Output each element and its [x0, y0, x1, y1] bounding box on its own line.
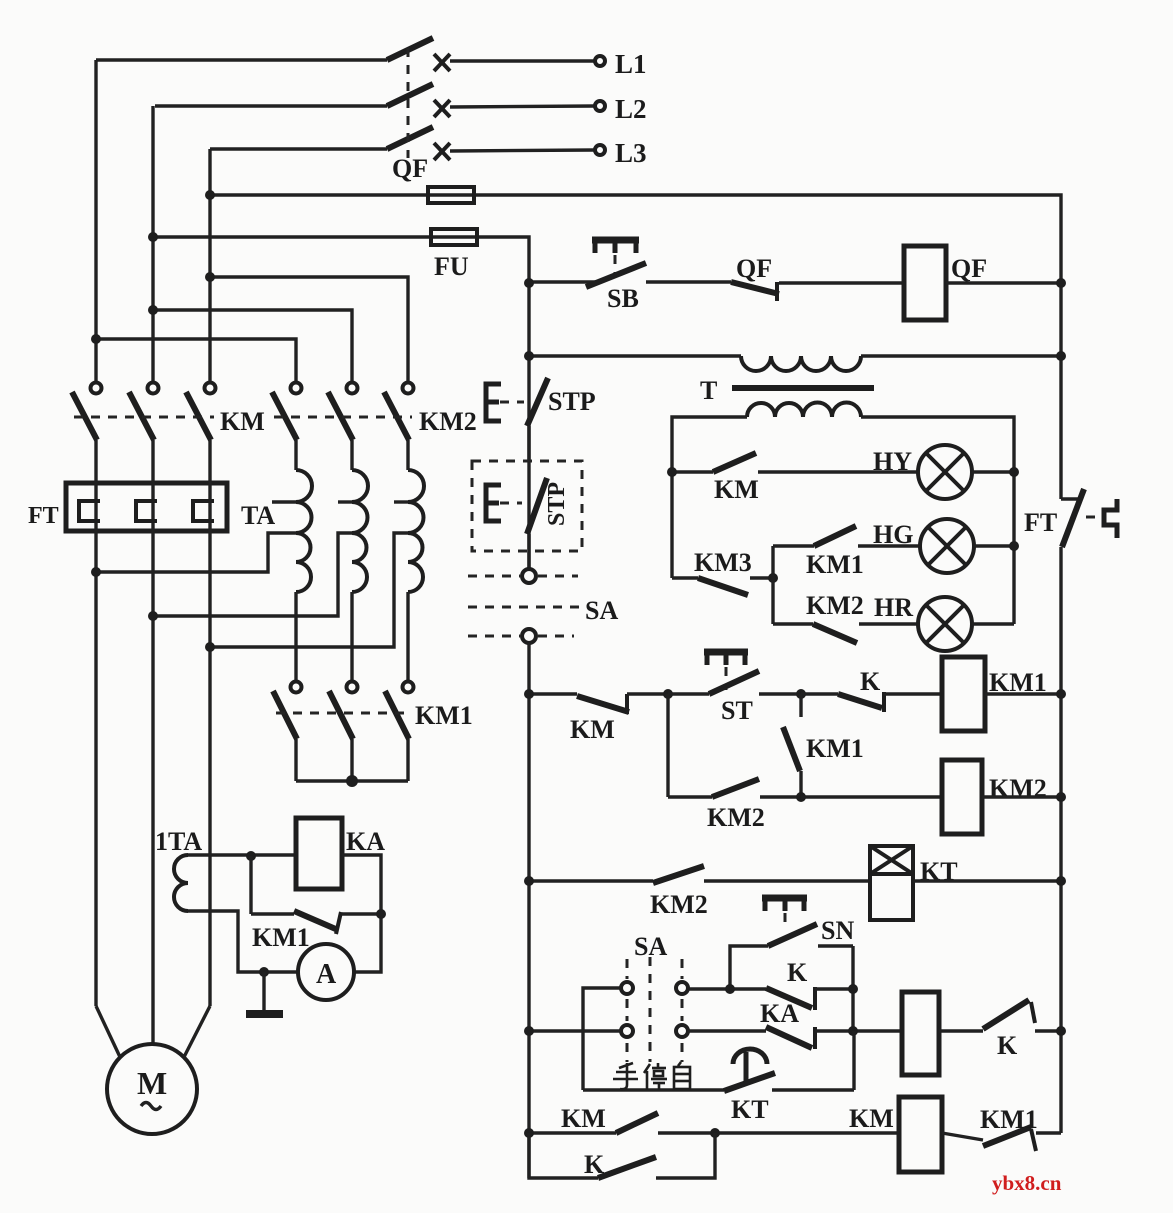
wire KA row left	[529, 1029, 621, 1032]
wire motor lead C	[184, 1006, 210, 1057]
svg-text:KT: KT	[731, 1095, 769, 1124]
junction left rail SB row	[524, 278, 534, 288]
contactor KM2 main contact pole 1	[272, 383, 302, 441]
contact K right	[939, 1000, 1061, 1031]
wire phase A vertical	[94, 60, 97, 383]
contact KM2 lamp row	[773, 624, 918, 643]
svg-text:A: A	[316, 959, 337, 990]
junction HG rail	[1009, 541, 1019, 551]
svg-text:HR: HR	[874, 593, 913, 622]
wire SA upper-left bracket	[583, 988, 621, 1090]
junction right rail KT row	[1056, 876, 1066, 886]
contactor KM2 main contact pole 2	[328, 383, 358, 441]
junction tap C	[205, 642, 215, 652]
wire SN K branch vertical	[851, 946, 854, 1031]
svg-text:K: K	[860, 667, 881, 696]
svg-text:KM1: KM1	[252, 923, 310, 952]
KM1 link dashed	[276, 712, 412, 715]
junction SN branch left	[725, 984, 735, 994]
SA contact circle upper-left	[621, 982, 633, 994]
wire left control rail	[527, 643, 530, 1178]
junction K coil row	[848, 1026, 858, 1036]
TA column 2 tap to phase B	[153, 533, 352, 616]
relay coil K	[902, 992, 939, 1075]
junction HY rail	[1009, 467, 1019, 477]
circuit breaker QF pole 3	[210, 127, 595, 160]
thermal contact FT (NC) on right rail	[1061, 489, 1117, 547]
lamp HR	[918, 597, 972, 651]
svg-text:KM1: KM1	[806, 550, 864, 579]
svg-text:KM2: KM2	[806, 591, 864, 620]
junction A-branch	[91, 334, 101, 344]
svg-text:FU: FU	[434, 252, 469, 281]
junction right rail SB row	[1056, 278, 1066, 288]
svg-text:TA: TA	[241, 501, 275, 530]
junction right rail K row	[1056, 1026, 1066, 1036]
junction SN branch right	[848, 984, 858, 994]
transformer T secondary	[672, 403, 1014, 625]
junction left rail bottom	[524, 1128, 534, 1138]
transformer T core	[732, 385, 874, 391]
contact STP upper (NC)	[486, 378, 548, 462]
pushbutton SB	[529, 240, 646, 287]
svg-text:ybx8.cn: ybx8.cn	[992, 1171, 1062, 1195]
junction ST branch	[663, 689, 673, 699]
wire QF coil to right rail	[946, 281, 1061, 284]
svg-text:STP: STP	[548, 387, 596, 416]
KM2 link dashed	[274, 416, 412, 419]
svg-text:KM: KM	[570, 715, 615, 744]
svg-text:KM2: KM2	[419, 407, 477, 436]
SA dashed row 3	[468, 635, 574, 638]
junction C-branch	[205, 272, 215, 282]
contact KA	[688, 1027, 902, 1049]
contact KM2 interlock row2	[668, 694, 801, 797]
svg-text:L1: L1	[615, 49, 647, 79]
pushbutton SN	[730, 898, 853, 989]
junction KM3 node	[768, 573, 778, 583]
ground	[246, 972, 283, 1014]
svg-text:L2: L2	[615, 94, 647, 124]
contact QF aux	[731, 282, 904, 301]
dashed enclosure STP lower	[472, 461, 582, 551]
wire HG to rail	[974, 544, 1014, 547]
TA column 3 tap to phase C	[210, 533, 408, 647]
junction fuse2 tap	[148, 232, 158, 242]
svg-text:SA: SA	[634, 932, 667, 961]
FT heater element phase A	[79, 440, 100, 1006]
wire right rail lower	[1059, 547, 1062, 1133]
motor M	[107, 1044, 197, 1134]
autotransformer TA winding column 1	[272, 440, 312, 682]
pushbutton ST	[668, 652, 801, 694]
svg-text:K: K	[997, 1031, 1018, 1060]
contact KM1 lamp row	[773, 526, 920, 546]
svg-text:SB: SB	[607, 284, 639, 313]
svg-text:KM: KM	[849, 1104, 894, 1133]
junction left rail T row	[524, 351, 534, 361]
svg-text:KM: KM	[220, 407, 265, 436]
contactor KM1 star contact pole 3	[385, 682, 414, 782]
selector SA lower contact circle	[522, 629, 536, 643]
autotransformer TA winding column 3	[394, 440, 424, 682]
fuse FU2	[431, 229, 477, 245]
contact KM2 KT row	[529, 866, 870, 883]
contactor KM1 star contact pole 2	[329, 682, 358, 782]
contact KM1 aux vertical	[783, 694, 801, 797]
junction KM1 aux branch	[796, 689, 806, 699]
svg-text:KM: KM	[714, 475, 759, 504]
wire control feed 2	[153, 237, 529, 569]
junction tap A	[91, 567, 101, 577]
svg-text:KM1: KM1	[980, 1105, 1038, 1134]
svg-text:K: K	[584, 1150, 605, 1179]
contactor coil KM	[899, 1097, 942, 1172]
contact KM self-hold row1	[529, 694, 668, 714]
autotransformer TA winding column 2	[338, 440, 368, 682]
svg-text:HY: HY	[873, 447, 912, 476]
contact KT delayed-close	[583, 1031, 854, 1091]
wire control feed 1	[210, 195, 1061, 499]
contact KM lamp row	[672, 453, 918, 472]
svg-text:KM3: KM3	[694, 548, 752, 577]
svg-text:KA: KA	[760, 999, 799, 1028]
relay coil KA	[296, 818, 342, 889]
SA dashed stems	[627, 957, 682, 1062]
svg-text:SN: SN	[821, 916, 854, 945]
selector SA upper contact circle	[522, 569, 536, 583]
wire HG HR branch vertical	[771, 546, 774, 624]
junction left rail row1	[524, 689, 534, 699]
svg-text:SA: SA	[585, 596, 618, 625]
FT heater element phase B	[136, 440, 157, 1044]
svg-text:K: K	[787, 958, 808, 987]
junction right rail row1	[1056, 689, 1066, 699]
svg-text:HG: HG	[873, 520, 913, 549]
SA dashed row 2	[468, 606, 580, 609]
timer relay KT	[870, 846, 913, 920]
junction ground tap	[259, 967, 269, 977]
lamp HY	[918, 445, 972, 499]
junction B-branch	[148, 305, 158, 315]
contact K parallel bottom	[529, 1133, 715, 1178]
terminal L1	[595, 56, 605, 66]
svg-text:KM2: KM2	[650, 890, 708, 919]
ammeter A	[298, 944, 354, 1000]
contactor KM main contact pole 1	[72, 383, 102, 441]
contactor KM main contact pole 3	[186, 383, 216, 441]
junction KA top	[246, 851, 256, 861]
wire KA right drop	[342, 855, 381, 972]
contact KM1 ammeter bypass	[251, 856, 381, 934]
hand stop auto characters	[613, 1062, 690, 1090]
circuit breaker QF main 3-pole switch, pole 1	[96, 38, 595, 71]
wire branch A to TA column 1	[96, 339, 296, 383]
contact KM3	[672, 578, 773, 595]
svg-text:KM1: KM1	[806, 734, 864, 763]
contact K auto branch	[688, 987, 853, 1010]
svg-text:1TA: 1TA	[155, 827, 202, 856]
transformer T primary	[529, 356, 1061, 371]
contact STP lower (NC)	[486, 478, 547, 569]
contact KM1 bottom right	[942, 1127, 1061, 1151]
terminal L2	[595, 101, 605, 111]
junction K parallel right	[710, 1128, 720, 1138]
FT heater element phase C	[193, 440, 214, 1006]
fuse FU1	[428, 187, 474, 203]
svg-text:L3: L3	[615, 138, 647, 168]
wire star point bus	[296, 779, 408, 782]
SA dashed row 1	[468, 575, 578, 578]
junction lamp rail KM	[667, 467, 677, 477]
wire row2 to coil	[801, 795, 942, 798]
svg-text:QF: QF	[951, 254, 987, 283]
wire branch C to TA column 3	[210, 277, 408, 383]
wire motor lead A	[96, 1006, 120, 1057]
svg-text:KM1: KM1	[415, 701, 473, 730]
thermal relay FT box	[66, 483, 227, 531]
contact K row1	[801, 692, 942, 712]
svg-text:QF: QF	[736, 254, 772, 283]
KM link dashed	[74, 416, 214, 419]
svg-text:T: T	[700, 376, 717, 405]
TA column 1 tap to phase A	[96, 533, 296, 572]
lamp HG	[920, 519, 974, 573]
wire KM2 coil to rail	[982, 795, 1061, 798]
svg-text:QF: QF	[392, 154, 428, 183]
junction left rail KT row	[524, 876, 534, 886]
QF mechanical link (dashed)	[407, 48, 410, 158]
junction fuse1 tap	[205, 190, 215, 200]
junction left rail KA row	[524, 1026, 534, 1036]
junction row2	[796, 792, 806, 802]
junction tap B	[148, 611, 158, 621]
contactor coil KM1	[942, 657, 985, 731]
wire phase C vertical	[208, 149, 211, 383]
wire SB to QF aux	[646, 280, 731, 283]
contactor KM2 main contact pole 3	[384, 383, 414, 441]
contactor KM1 star contact pole 1	[273, 682, 302, 782]
svg-text:ST: ST	[721, 696, 753, 725]
svg-text:KM2: KM2	[707, 803, 765, 832]
svg-text:FT: FT	[1024, 508, 1057, 537]
SA contact circle lower-left	[621, 1025, 633, 1037]
junction right rail T row	[1056, 351, 1066, 361]
contactor KM main contact pole 2	[129, 383, 159, 441]
contactor coil KM2	[942, 760, 982, 834]
circuit breaker QF pole 2	[155, 84, 595, 117]
SA contact circle upper-right	[676, 982, 688, 994]
wire KM1 coil to rail	[985, 692, 1061, 695]
wire phase B vertical	[151, 106, 154, 383]
wire HY to rail	[972, 470, 1014, 473]
breaker coil QF	[904, 246, 946, 320]
contact KM bottom row	[529, 1113, 899, 1133]
wire KT to rail	[913, 879, 1061, 882]
current transformer 1TA	[174, 855, 298, 972]
junction star point	[346, 775, 358, 787]
svg-text:KM: KM	[561, 1104, 606, 1133]
svg-text:FT: FT	[28, 503, 59, 529]
junction right rail row2	[1056, 792, 1066, 802]
svg-text:KA: KA	[346, 827, 385, 856]
wire branch B to TA column 2	[153, 310, 352, 383]
junction bypass right	[376, 909, 386, 919]
svg-text:M: M	[137, 1065, 167, 1101]
svg-text:STP: STP	[544, 482, 570, 526]
wire HR to rail	[972, 622, 1014, 625]
terminal L3	[595, 145, 605, 155]
SA contact circle lower-right	[676, 1025, 688, 1037]
